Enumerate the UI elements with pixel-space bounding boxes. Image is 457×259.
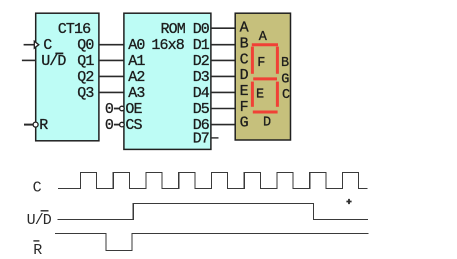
svg-text:U/D: U/D — [41, 53, 66, 70]
svg-text:D1: D1 — [193, 37, 210, 54]
svg-text:A: A — [259, 30, 268, 45]
wire D7 stub — [211, 137, 219, 139]
segment F (upper left) — [251, 47, 254, 74]
waveform C clock — [58, 173, 368, 189]
svg-text:D: D — [240, 67, 249, 84]
counter U1 CT16 body — [36, 13, 99, 141]
wire D1-B — [211, 44, 235, 46]
svg-text:D5: D5 — [193, 101, 210, 118]
svg-text:A: A — [240, 20, 249, 37]
wire D5-F — [211, 108, 235, 110]
OE bubble — [120, 106, 125, 111]
segment E (lower left) — [251, 82, 254, 107]
wire D0-A — [211, 27, 235, 29]
segment C (lower right) — [276, 82, 279, 107]
reset input wire — [24, 124, 33, 126]
svg-text:U/D: U/D — [27, 212, 52, 229]
CS bubble — [120, 122, 125, 127]
svg-text:ROM: ROM — [161, 21, 186, 38]
svg-text:F: F — [240, 99, 248, 116]
segment A (top) — [252, 43, 278, 46]
svg-text:A0: A0 — [128, 37, 145, 54]
svg-text:Q1: Q1 — [77, 53, 94, 70]
clock edge triangle — [34, 41, 39, 48]
clock input wire — [24, 44, 35, 46]
CS wire — [114, 124, 120, 126]
svg-text:16x8: 16x8 — [151, 37, 184, 54]
wire Q2-A2 — [99, 75, 124, 77]
svg-text:D3: D3 — [193, 69, 210, 86]
svg-text:D2: D2 — [193, 53, 209, 70]
waveform U/D — [58, 204, 368, 220]
display U3 body — [235, 13, 290, 140]
svg-text:R: R — [39, 117, 48, 134]
svg-text:Q3: Q3 — [77, 85, 94, 102]
plus marker — [346, 199, 351, 204]
svg-text:0: 0 — [105, 117, 114, 134]
segment G (middle) — [253, 77, 277, 80]
svg-text:F: F — [257, 56, 265, 71]
svg-text:CT16: CT16 — [58, 21, 91, 38]
waveform R — [55, 234, 369, 251]
segment D (bottom) — [253, 111, 278, 114]
svg-text:E: E — [256, 88, 264, 103]
svg-text:C: C — [240, 51, 249, 68]
svg-text:G: G — [281, 73, 289, 88]
svg-text:Q0: Q0 — [77, 37, 94, 54]
reset bubble — [33, 122, 38, 127]
ROM U2 16x8 body — [124, 13, 211, 149]
OE wire — [114, 108, 120, 110]
svg-text:R: R — [33, 242, 42, 259]
svg-text:A1: A1 — [128, 53, 145, 70]
svg-text:A2: A2 — [128, 69, 144, 86]
wire D3-D — [211, 75, 235, 77]
wire D2-C — [211, 59, 235, 61]
wire Q3-A3 — [99, 91, 124, 93]
svg-text:E: E — [240, 83, 249, 100]
svg-text:D4: D4 — [193, 85, 210, 102]
U/D input wire — [22, 59, 36, 61]
svg-text:C: C — [33, 180, 42, 197]
svg-text:0: 0 — [105, 101, 114, 118]
wire Q0-A0 — [99, 44, 124, 46]
svg-text:D7: D7 — [193, 131, 209, 148]
wire D4-E — [211, 91, 235, 93]
svg-text:G: G — [240, 115, 249, 132]
svg-text:D: D — [263, 115, 271, 130]
svg-text:C: C — [43, 37, 52, 54]
svg-text:CS: CS — [125, 117, 142, 134]
svg-text:OE: OE — [125, 101, 142, 118]
svg-text:B: B — [240, 36, 249, 53]
svg-text:Q2: Q2 — [77, 69, 93, 86]
svg-text:A3: A3 — [128, 85, 145, 102]
svg-text:C: C — [282, 88, 290, 103]
segment B (upper right) — [276, 47, 279, 74]
wire Q1-A1 — [99, 59, 124, 61]
svg-text:D0: D0 — [193, 21, 210, 38]
wire D6-G — [211, 124, 235, 126]
svg-text:B: B — [281, 56, 289, 71]
